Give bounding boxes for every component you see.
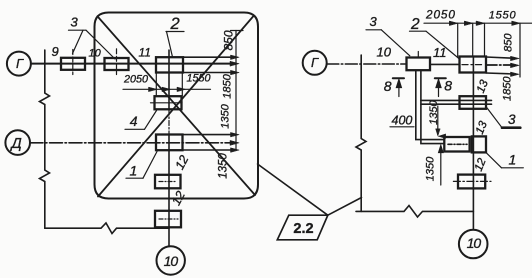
axis line Г	[31, 63, 235, 65]
main column center line upper	[168, 50, 170, 110]
cross diagonal TR-BL	[98, 16, 254, 197]
box pair left	[444, 137, 469, 152]
wire top of row Г	[183, 56, 235, 58]
svg-text:850: 850	[502, 33, 514, 52]
dim arrow b	[162, 87, 171, 91]
box 12 upper	[155, 175, 181, 189]
leader 1	[143, 152, 157, 179]
svg-text:1550: 1550	[187, 73, 211, 85]
dimension extension vertical right	[235, 31, 237, 150]
svg-text:1550: 1550	[489, 10, 517, 22]
underline 400	[390, 126, 414, 128]
leader 2	[167, 32, 173, 58]
leader 3 mid	[487, 108, 502, 128]
section mark 8 left tick	[393, 77, 404, 79]
svg-text:2050: 2050	[123, 74, 148, 86]
extension c	[484, 23, 486, 56]
leader 3 to box 10	[86, 30, 115, 59]
underline 2	[410, 30, 427, 32]
arrow 1350 upper	[436, 129, 440, 136]
cross diagonal TL-BR	[99, 18, 256, 196]
top line right of box2	[486, 57, 514, 58]
axis line Г right	[327, 63, 407, 65]
svg-text:8: 8	[384, 78, 392, 94]
svg-text:1850: 1850	[221, 73, 233, 98]
box 2 right drawing	[460, 57, 487, 73]
svg-text:12: 12	[172, 153, 191, 172]
arrow bottom row Д	[231, 148, 240, 152]
svg-text:3: 3	[508, 112, 516, 127]
svg-text:Д: Д	[10, 136, 22, 152]
bottom reference line right	[356, 206, 473, 218]
underline of 4	[125, 128, 145, 130]
box 9	[61, 58, 85, 70]
bottom line right of box2	[486, 73, 514, 74]
box 4 (middle)	[155, 96, 182, 109]
box 10	[105, 58, 129, 70]
svg-text:Г: Г	[311, 55, 319, 70]
leader 4	[145, 111, 157, 130]
svg-text:1850: 1850	[501, 76, 513, 101]
svg-text:13: 13	[475, 78, 491, 95]
wire top of row Д	[183, 134, 235, 136]
svg-text:2050: 2050	[425, 8, 456, 22]
main column center line lower	[168, 135, 170, 247]
dim line 1350 upper	[437, 106, 439, 135]
svg-text:9: 9	[52, 44, 59, 59]
top dim tick a	[449, 21, 458, 25]
axis Г arrow	[230, 61, 239, 66]
arrow top row Д	[231, 132, 240, 136]
extension b	[472, 23, 474, 56]
svg-text:10: 10	[89, 47, 102, 59]
box 12 right drawing	[458, 175, 485, 189]
box 10/11 right	[407, 58, 431, 71]
svg-text:2.2: 2.2	[293, 221, 313, 237]
box 12 lower	[155, 211, 181, 228]
axis dash inside box 2	[462, 64, 484, 66]
box 12 lower mid dash	[159, 218, 178, 220]
bottom reference line	[45, 223, 169, 234]
wire pair to box 13	[421, 99, 492, 101]
top dimension line	[424, 22, 532, 24]
svg-text:850: 850	[221, 30, 235, 50]
box 9 center line	[72, 50, 74, 75]
section mark 8 right tick	[435, 77, 446, 79]
flag parallelogram 2.2	[277, 215, 328, 240]
extension d	[519, 23, 521, 77]
axis circle Г	[7, 52, 31, 76]
underline of 3	[69, 29, 87, 31]
svg-text:1350: 1350	[219, 103, 231, 128]
axis dashdot right of box 2	[486, 64, 514, 66]
leader 1 right	[485, 152, 501, 168]
leader 3 to box 9	[73, 30, 84, 53]
wire pair down from box	[416, 70, 445, 139]
leader 3	[381, 30, 410, 56]
svg-text:11: 11	[139, 45, 151, 59]
leader 2	[426, 31, 460, 59]
svg-text:4: 4	[130, 113, 138, 129]
svg-text:10: 10	[377, 45, 392, 60]
svg-text:2: 2	[410, 16, 420, 33]
svg-text:400: 400	[392, 114, 413, 128]
dim arrow a	[149, 87, 158, 91]
small arrow into pair row	[439, 134, 446, 138]
axis through box to right	[430, 63, 460, 65]
circle 10 bottom left drawing	[157, 246, 185, 274]
box 12 mid dashdot	[453, 180, 491, 182]
wire bottom of row Г	[183, 72, 235, 74]
svg-text:12: 12	[169, 189, 188, 208]
svg-text:2: 2	[170, 15, 180, 33]
underline 1 right	[502, 167, 524, 169]
flag leader right	[328, 198, 362, 216]
box pair left dash	[448, 143, 467, 145]
box row Д	[156, 135, 183, 151]
box pair right	[472, 136, 486, 152]
box 4 mid line	[151, 102, 183, 104]
dim line 1350 lower	[439, 146, 443, 186]
svg-text:Г: Г	[16, 56, 24, 71]
reference vertical with break	[356, 55, 366, 211]
svg-text:1350: 1350	[424, 156, 436, 181]
arrow axis right	[511, 63, 520, 68]
underline 3 mid	[502, 126, 520, 129]
svg-text:8: 8	[444, 77, 452, 93]
svg-text:3: 3	[370, 14, 378, 29]
axis line Д	[30, 142, 235, 144]
svg-text:11: 11	[433, 45, 447, 60]
box 10 center line	[116, 49, 118, 75]
flag leader left	[258, 164, 328, 215]
underline of 1	[126, 177, 143, 179]
side riser left	[155, 73, 157, 96]
svg-text:3: 3	[71, 15, 79, 30]
main column right drawing	[472, 57, 474, 230]
section mark 8 right arrow	[436, 80, 441, 97]
dimension line 2050/1550	[123, 88, 211, 90]
arrow bottom right	[511, 72, 520, 76]
svg-text:1: 1	[509, 151, 517, 167]
svg-text:10: 10	[164, 253, 179, 269]
left reference vertical line	[40, 50, 50, 228]
wire bottom of row Д	[183, 149, 235, 151]
axis circle Д	[5, 130, 30, 155]
arrow bottom row Г	[231, 70, 240, 74]
arrow top row Г	[231, 55, 240, 59]
wire 2 to box 13	[421, 103, 492, 105]
svg-text:12: 12	[473, 156, 489, 173]
tick at top of extension	[231, 30, 244, 32]
top dim tick b	[464, 21, 473, 25]
circle 10 bottom right	[459, 230, 488, 259]
box 13	[460, 96, 487, 109]
arrow top right	[511, 56, 520, 60]
side riser right	[181, 73, 183, 96]
box 10/11 center line	[417, 52, 419, 58]
main column dash segment	[168, 110, 170, 135]
wire 2	[421, 70, 444, 143]
svg-text:13: 13	[474, 119, 490, 136]
top dim tick d	[512, 21, 521, 25]
box 11 (row Г)	[156, 57, 183, 72]
axis Д arrow	[230, 140, 239, 145]
axis circle Г right	[303, 51, 327, 75]
dim arrow c	[177, 87, 186, 91]
rounded border of detail area	[95, 13, 259, 199]
section mark 8 left arrow	[396, 80, 401, 97]
top dim tick c	[476, 21, 485, 25]
svg-text:10: 10	[467, 235, 482, 251]
underline of 2	[166, 31, 184, 33]
svg-text:1: 1	[130, 162, 138, 178]
box 12 upper mid dash	[159, 181, 177, 183]
underline 3	[366, 29, 381, 31]
extension a	[457, 23, 459, 56]
svg-text:1350: 1350	[217, 153, 229, 179]
